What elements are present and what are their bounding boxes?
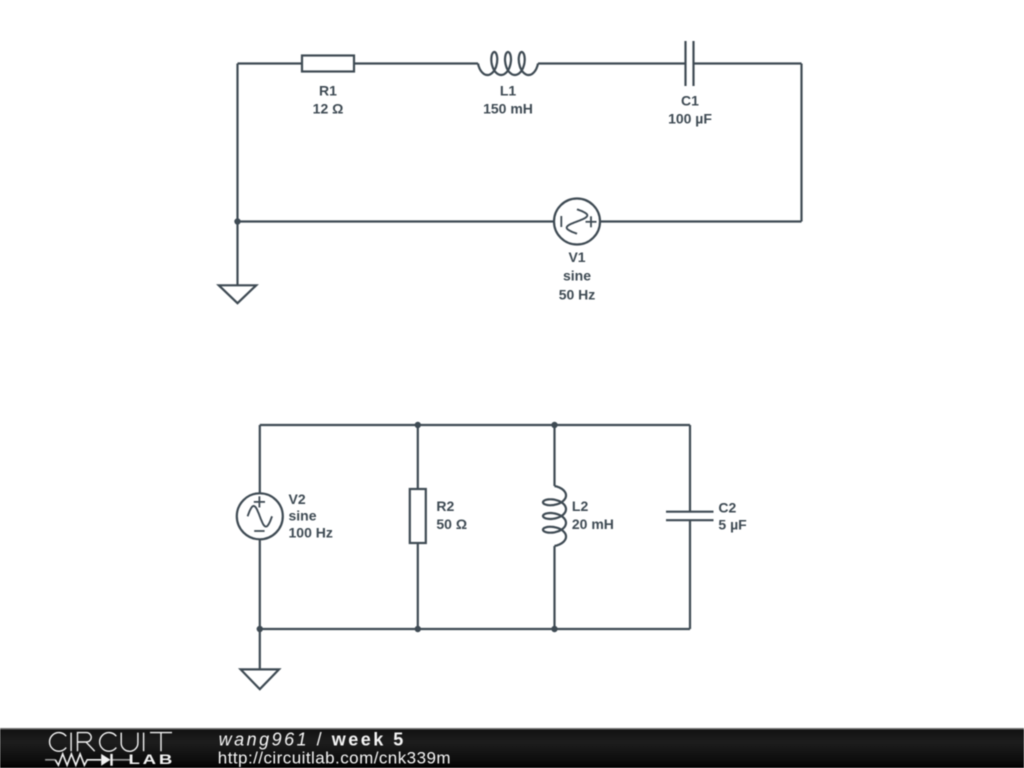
- voltage source V1: [554, 199, 600, 245]
- capacitor C1: [686, 41, 694, 86]
- node dot top rail R2: [415, 422, 421, 428]
- node dot bottom rail R2: [415, 626, 421, 632]
- inductor L2: [543, 486, 566, 546]
- wire V2 branch top: [259, 425, 261, 493]
- wire top-left vertical segment: [236, 64, 238, 286]
- svg-text:L1: L1: [500, 83, 517, 99]
- ground (top circuit): [219, 285, 256, 303]
- svg-text:5 µF: 5 µF: [718, 517, 747, 533]
- svg-text:sine: sine: [289, 508, 317, 524]
- svg-text:50 Ω: 50 Ω: [436, 516, 467, 532]
- wire C2 branch bottom: [689, 520, 691, 629]
- wire V1 to ground node: [238, 220, 555, 222]
- node dot top rail L2: [551, 422, 557, 428]
- wire R2 branch top: [417, 425, 419, 489]
- resistor R1: [302, 56, 354, 72]
- svg-text:C1: C1: [681, 93, 699, 109]
- CircuitLab logo diode: [101, 754, 113, 766]
- voltage source V2: [237, 493, 283, 539]
- wire bottom rail right (corner to V1): [600, 220, 802, 222]
- svg-text:C2: C2: [718, 499, 736, 515]
- svg-text:100 µF: 100 µF: [668, 111, 712, 127]
- wire C2 branch top: [689, 425, 691, 512]
- svg-text:12 Ω: 12 Ω: [313, 101, 344, 117]
- node dot bottom rail L2: [551, 626, 557, 632]
- wire ground stem (bottom circuit): [259, 629, 261, 669]
- svg-text:20 mH: 20 mH: [572, 516, 614, 532]
- svg-text:R1: R1: [319, 83, 337, 99]
- wire bottom circuit bottom rail: [260, 628, 690, 630]
- svg-text:sine: sine: [563, 268, 591, 284]
- wire V2 branch bottom: [259, 539, 261, 629]
- svg-text:V1: V1: [568, 249, 585, 265]
- wire L1 to C1: [538, 62, 686, 64]
- CircuitLab logo word LAB: [129, 752, 176, 767]
- svg-text:wang961 / week 5: wang961 / week 5: [219, 730, 406, 750]
- wire R1 to L1: [354, 62, 478, 64]
- capacitor C2: [666, 512, 714, 521]
- svg-text:50 Hz: 50 Hz: [559, 286, 596, 302]
- wire L2 branch bottom: [553, 546, 555, 629]
- svg-text:L2: L2: [572, 498, 589, 514]
- inductor L1: [478, 52, 538, 75]
- svg-text:V2: V2: [289, 491, 306, 507]
- node junction dot (top circuit): [234, 218, 240, 224]
- resistor R2: [410, 489, 426, 543]
- wire R2 branch bottom: [417, 543, 419, 629]
- svg-text:R2: R2: [436, 498, 454, 514]
- ground (bottom circuit): [241, 669, 279, 689]
- wire C1 to top-right corner: [694, 62, 802, 64]
- wire right vertical segment: [800, 64, 802, 222]
- wire L2 branch top: [553, 425, 555, 486]
- wire top rail left (corner to R1): [238, 62, 303, 64]
- svg-text:http://circuitlab.com/cnk339m: http://circuitlab.com/cnk339m: [218, 748, 451, 767]
- wire bottom circuit top rail: [260, 424, 690, 426]
- svg-text:100 Hz: 100 Hz: [289, 524, 333, 540]
- CircuitLab logo resistor-diode squiggle: [45, 759, 131, 761]
- svg-text:LAB: LAB: [129, 752, 176, 767]
- node dot bottom rail V2/ground: [257, 626, 263, 632]
- svg-text:150 mH: 150 mH: [483, 101, 533, 117]
- footer bar: [0, 728, 1024, 768]
- CircuitLab logo word CIRCUIT: [50, 733, 172, 752]
